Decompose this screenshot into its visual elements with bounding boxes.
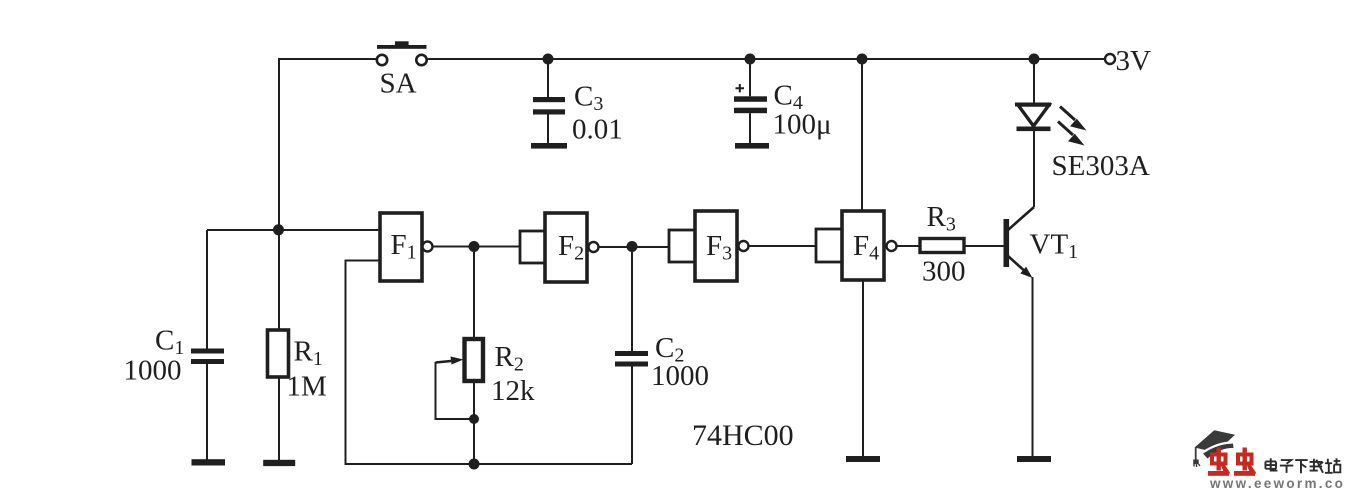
svg-text:12k: 12k bbox=[491, 375, 535, 407]
resistor R1 1M bbox=[268, 229, 327, 460]
svg-text:www.eeworm.com: www.eeworm.com bbox=[1209, 476, 1345, 489]
svg-text:SA: SA bbox=[380, 68, 417, 100]
pushbutton switch SA bbox=[377, 41, 427, 99]
capacitor C3 0.01 bbox=[531, 59, 623, 149]
svg-text:R2: R2 bbox=[495, 341, 524, 376]
gate F2 bbox=[520, 213, 599, 282]
gate F3 bbox=[669, 211, 749, 281]
svg-text:R3: R3 bbox=[927, 201, 956, 236]
node: junction of R1 with F1 input wire bbox=[273, 224, 284, 235]
wire: C1/R1 node to F1 upper input bbox=[207, 229, 380, 231]
node: rail junction to C3 bbox=[543, 54, 554, 65]
wire: F2 output to F3 input bbox=[599, 246, 670, 248]
svg-text:1000: 1000 bbox=[124, 355, 182, 387]
capacitor C1 1000 bbox=[124, 230, 225, 460]
wire: top-left corner from SA left terminal down to R1 branch bbox=[279, 59, 376, 228]
node: rail junction to LED bbox=[1029, 54, 1040, 65]
gate F1 bbox=[380, 213, 433, 281]
watermark: red bug character 2 bbox=[1234, 448, 1256, 477]
node: F2 output junction to C2 bbox=[627, 241, 638, 252]
node: F1 output junction to R2 bbox=[469, 241, 480, 252]
watermark: text dianzi xiazaizhan bbox=[1265, 458, 1340, 473]
node: rail junction to F4 supply bbox=[857, 54, 868, 65]
wire: F1 output to F2 input bbox=[433, 246, 521, 248]
wire: rail down to F4 supply pin bbox=[861, 59, 863, 211]
svg-text:300: 300 bbox=[922, 256, 966, 288]
watermark: red bug character 1 bbox=[1208, 448, 1230, 477]
svg-text:100μ: 100μ bbox=[773, 109, 832, 141]
svg-text:3V: 3V bbox=[1116, 45, 1152, 77]
node: rail junction to C4 bbox=[745, 54, 756, 65]
svg-text:VT1: VT1 bbox=[1030, 229, 1079, 264]
svg-text:R1: R1 bbox=[294, 336, 323, 371]
resistor R3 300 bbox=[920, 201, 966, 288]
transistor VT1 bbox=[1004, 131, 1079, 456]
watermark: graduation cap bbox=[1193, 430, 1235, 467]
ground: R1 bbox=[263, 460, 295, 466]
svg-text:C3: C3 bbox=[574, 81, 603, 116]
wire: F3 output to F4 input bbox=[749, 245, 817, 247]
ground: C1 bbox=[192, 459, 226, 465]
wire: R3 to VT1 base bbox=[964, 245, 1004, 247]
capacitor C2 1000 bbox=[615, 247, 709, 464]
rheostat R2 12k bbox=[436, 247, 536, 470]
svg-text:1M: 1M bbox=[287, 371, 327, 403]
svg-text:SE303A: SE303A bbox=[1052, 150, 1150, 182]
wire: F4 ground pin bbox=[862, 280, 864, 456]
svg-text:74HC00: 74HC00 bbox=[692, 419, 794, 452]
svg-text:0.01: 0.01 bbox=[572, 114, 623, 146]
svg-text:1000: 1000 bbox=[651, 360, 709, 392]
ground: VT1 emitter bbox=[1017, 456, 1051, 462]
terminal: 3V supply bbox=[1105, 45, 1151, 77]
LED SE303A bbox=[1015, 59, 1150, 207]
wire: F1 lower input feedback down and along bottom to C2 bbox=[346, 261, 633, 465]
ground: F4 bbox=[846, 456, 880, 462]
gate F4 bbox=[816, 211, 897, 280]
wire: F4 output to R3 bbox=[897, 245, 921, 247]
wire: top supply rail from SA to 3V terminal bbox=[427, 58, 1106, 60]
capacitor C4 100u electrolytic with + mark bbox=[734, 59, 832, 149]
